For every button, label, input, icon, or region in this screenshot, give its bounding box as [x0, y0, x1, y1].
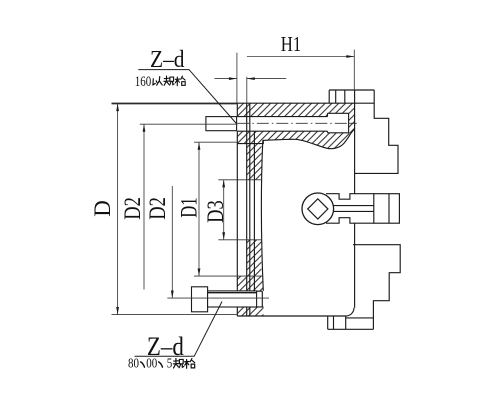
svg-text:D1: D1	[177, 197, 202, 217]
svg-text:D2: D2	[120, 197, 145, 220]
svg-text:D: D	[90, 200, 115, 217]
svg-text:H1: H1	[281, 32, 301, 56]
svg-text:D2: D2	[145, 197, 170, 220]
svg-text:D3: D3	[203, 200, 228, 223]
svg-text:5: 5	[167, 355, 173, 370]
svg-text:00: 00	[146, 355, 157, 370]
svg-text:160: 160	[135, 74, 152, 90]
svg-text:80: 80	[128, 355, 139, 370]
